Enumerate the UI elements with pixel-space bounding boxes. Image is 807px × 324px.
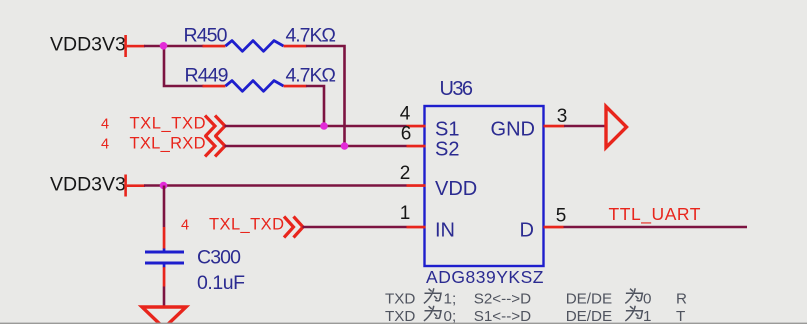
svg-text:IN: IN [435, 220, 455, 242]
svg-text:T: T [676, 308, 685, 324]
svg-text:0;: 0; [444, 308, 457, 324]
wire junction down to C300 [163, 186, 166, 228]
pin 2 VDD [407, 184, 426, 187]
svg-text:0: 0 [643, 291, 651, 308]
pin 3 GND [544, 125, 565, 128]
svg-text:4.7KΩ: 4.7KΩ [286, 65, 337, 87]
port TXL_TXD (to IN) [181, 216, 303, 238]
wire VDD3V3 to R450 left [144, 45, 204, 48]
wire VDD3V3 to pin VDD [144, 184, 407, 187]
wire R449 right down to TXD row [306, 86, 324, 126]
wire GND pin to arrow [564, 125, 606, 128]
junction RXD/R450 [341, 142, 349, 150]
svg-text:1: 1 [400, 203, 411, 224]
wire TXD port to pin IN [303, 226, 407, 229]
power port arrow (GND pin 3) [606, 107, 627, 148]
svg-text:6: 6 [401, 124, 412, 145]
svg-text:TXL_RXD: TXL_RXD [130, 135, 206, 153]
wire junction A down to R449 row [164, 46, 204, 86]
svg-text:R450: R450 [184, 25, 228, 47]
resistor R449 [185, 65, 337, 92]
wire R450 right down to RXD row [306, 46, 345, 146]
pin 4 S1 [407, 125, 426, 128]
note text line 1 [385, 291, 687, 308]
svg-text:C300: C300 [197, 247, 241, 269]
port TXL_RXD (to S2) [101, 135, 225, 157]
note glyph 为 line1 a [424, 288, 441, 303]
svg-text:R449: R449 [185, 65, 229, 87]
svg-text:2: 2 [400, 163, 411, 184]
svg-text:4: 4 [181, 218, 189, 234]
note glyph 为 line2 b [625, 306, 642, 321]
svg-text:DE/DE: DE/DE [566, 291, 612, 308]
bottom frame line [0, 323, 807, 324]
svg-text:4: 4 [400, 104, 411, 125]
svg-text:GND: GND [491, 119, 535, 141]
junction VDD3V3/C300 [160, 182, 168, 190]
power port VDD3V3 top [50, 34, 145, 58]
capacitor C300 [145, 227, 245, 294]
svg-text:ADG839YKSZ: ADG839YKSZ [426, 267, 544, 287]
svg-text:4: 4 [101, 137, 109, 153]
wire D pin to TTL_UART [564, 226, 748, 229]
svg-text:0.1uF: 0.1uF [197, 272, 245, 294]
svg-text:3: 3 [557, 106, 568, 127]
wire RXD row to pin S2 [225, 145, 407, 148]
note glyph 为 line1 b [625, 288, 642, 303]
port TXL_TXD (to S1) [101, 115, 225, 137]
svg-text:VDD3V3: VDD3V3 [50, 174, 126, 196]
svg-text:TXD: TXD [385, 308, 415, 324]
svg-text:TTL_UART: TTL_UART [609, 204, 701, 225]
IC U36 ADG839YKSZ [400, 78, 568, 287]
svg-text:TXD: TXD [385, 291, 415, 308]
pin 5 D [544, 226, 564, 229]
junction TXD/R449 [320, 122, 328, 130]
junction at VDD3V3/R450 [160, 42, 168, 50]
pin 1 IN [407, 226, 426, 229]
svg-text:S2<-->D: S2<-->D [474, 291, 531, 308]
svg-text:VDD3V3: VDD3V3 [50, 34, 126, 56]
svg-text:S2: S2 [435, 139, 459, 161]
resistor R450 [184, 25, 337, 52]
svg-text:R: R [676, 291, 687, 308]
svg-text:TXL_TXD: TXL_TXD [130, 115, 206, 133]
svg-text:1;: 1; [444, 291, 457, 308]
svg-text:VDD: VDD [435, 178, 477, 200]
svg-text:DE/DE: DE/DE [566, 308, 612, 324]
svg-text:1: 1 [643, 308, 651, 324]
svg-text:4.7KΩ: 4.7KΩ [286, 25, 337, 47]
svg-text:5: 5 [556, 206, 567, 227]
ground [142, 307, 186, 324]
wire TXD row to pin S1 [225, 125, 407, 128]
svg-text:TXL_TXD: TXL_TXD [209, 216, 284, 234]
svg-text:U36: U36 [440, 78, 474, 100]
svg-text:D: D [520, 220, 534, 242]
power port VDD3V3 lower [50, 174, 145, 197]
svg-text:S1<-->D: S1<-->D [474, 308, 531, 324]
note text line 2 [385, 308, 685, 324]
wire C300 to ground [163, 287, 166, 308]
pin 6 S2 [407, 145, 426, 148]
svg-text:S1: S1 [435, 119, 459, 141]
svg-text:4: 4 [101, 117, 109, 133]
note glyph 为 line2 a [424, 306, 441, 321]
